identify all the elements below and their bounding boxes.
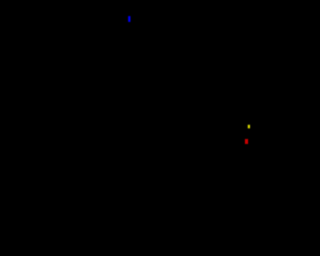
molecule drawing on black background; only heteroatom marks visible: [0, 0, 256, 256]
nitrogen N label (blue bar): [128, 16, 130, 22]
sulfur S label (yellow mark): [248, 125, 250, 129]
oxygen O label (red double-stroke mark): [245, 139, 248, 144]
